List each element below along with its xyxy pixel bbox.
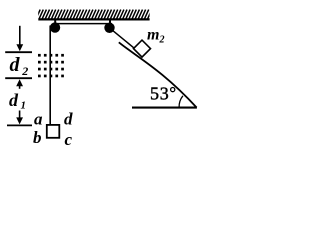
svg-text:c: c xyxy=(65,130,73,149)
svg-text:m: m xyxy=(147,27,159,44)
svg-text:b: b xyxy=(33,128,42,147)
arrow down to top tick xyxy=(16,26,23,51)
ceiling line xyxy=(38,18,149,20)
wire vertical string xyxy=(49,26,51,125)
arrow up to middle tick xyxy=(16,79,23,89)
angle arc xyxy=(179,96,183,108)
arrow down to bottom tick xyxy=(16,111,23,125)
pulley P2 xyxy=(104,23,114,33)
svg-text:1: 1 xyxy=(21,100,27,112)
svg-text:2: 2 xyxy=(159,35,165,46)
svg-text:2: 2 xyxy=(21,64,28,78)
ceiling hatch xyxy=(36,10,152,19)
hook stem right xyxy=(109,20,111,24)
ticker tape dots xyxy=(38,54,64,77)
pulley P1 xyxy=(50,22,60,32)
ground baseline xyxy=(132,107,197,109)
degree circle of 53 label xyxy=(171,88,175,92)
tick line middle (d2/d1 boundary) xyxy=(5,77,32,79)
svg-text:d: d xyxy=(64,110,73,129)
block m2 on incline xyxy=(134,40,151,57)
tick line bottom (d1 lower) xyxy=(7,124,32,126)
svg-text:a: a xyxy=(34,110,43,129)
svg-text:53: 53 xyxy=(150,84,170,104)
wire incline string xyxy=(113,30,134,48)
wire horizontal string between pulleys xyxy=(53,23,112,25)
svg-text:d: d xyxy=(10,54,21,76)
hook stem left xyxy=(54,20,56,24)
hanging block abcd xyxy=(47,125,60,138)
tick line top (d2 upper) xyxy=(5,51,32,53)
incline surface xyxy=(119,42,197,107)
svg-text:d: d xyxy=(9,90,19,110)
